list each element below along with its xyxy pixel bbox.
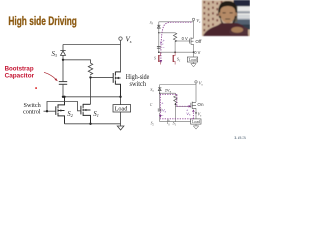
mini1 dashed charge curve [161,22,192,50]
mosfet S2 [56,97,65,124]
mini1 wire top rail [159,21,194,23]
ground [117,126,124,130]
mini2 wire bottom rail [160,121,196,123]
wire switch-control bus [44,102,81,112]
wire mid rail [63,96,121,98]
webcam person hand and arm [229,27,248,35]
svg-text:Load: Load [115,106,129,113]
mini1 transistor S1 (red, on) [172,55,174,62]
svg-text:S3: S3 [150,21,154,26]
mini2 wire resistor to bottom rail [174,104,176,122]
mini2 dashed loop [160,94,194,119]
svg-text:S2: S2 [67,111,73,118]
webcam printer [236,6,251,20]
wire node A to resistor [63,60,91,63]
mosfet S1 [81,104,91,124]
wire load bottom [120,112,122,126]
mini1 wire bottom rail [159,51,194,53]
webcam person torso sweater [203,23,249,36]
webcam shadow behind head [233,6,237,22]
wire top rail [63,44,121,46]
supply terminal Vs [119,37,122,40]
wire cap bottom [62,84,64,97]
webcam person eyes [223,11,226,14]
svg-text:0 V: 0 V [182,36,188,41]
wire cap top [62,60,64,82]
svg-text:On: On [197,102,204,107]
wire node B down to S1 drain [90,77,92,104]
mini1 wire left vertical [158,22,160,52]
wire diode top [62,45,64,51]
svg-text:C: C [150,103,153,107]
svg-text:Capacitor: Capacitor [5,72,35,79]
svg-text:183: 183 [234,135,248,140]
wire Vs drop [120,40,122,44]
mini2 wire gate feed [175,105,191,107]
svg-text:switch: switch [130,80,147,88]
svg-text:S2: S2 [151,122,155,127]
svg-text:S3: S3 [150,88,154,93]
mini2 junction dot source node [195,112,197,114]
mini1 dashed arrow down [160,53,162,61]
node S2 drain junction dot [63,96,65,98]
wire load top [120,97,122,105]
svg-text:Vs: Vs [199,80,204,86]
svg-text:Vs: Vs [196,18,201,24]
node mid-rail right junction dot [119,96,121,98]
svg-text:−: − [162,45,165,50]
capacitor Cb bootstrap [59,82,67,85]
svg-text:Bootstrap: Bootstrap [5,65,34,72]
webcam person ears [219,13,221,17]
mini2 ground [193,126,198,129]
mini1 wire resistor to rail [174,41,176,52]
wire node B gate feed [91,76,114,78]
mini1 mosfet (high side) [190,37,194,44]
mini1 terminal Vs [192,18,194,20]
webcam furniture right [233,20,251,29]
resistor R [88,63,92,75]
mini1 diode S3 [157,25,160,28]
leader arrow [44,72,56,79]
node A junction dot [62,59,64,61]
svg-text:Vs: Vs [198,111,203,117]
svg-text:Vs: Vs [126,36,132,45]
webcam person hair [218,1,237,18]
mini2 wire top rail [160,84,196,86]
webcam background wallpaper [202,0,250,36]
svg-text:2Vs: 2Vs [165,87,172,93]
mini1 junction dots [158,32,159,33]
wire ground rail [65,123,121,125]
mini2 mosfet (high side, on) [191,102,196,109]
diode S3 [60,51,65,56]
mini2 wire left vertical [159,85,161,109]
svg-text:S1: S1 [173,121,177,127]
svg-text:S1: S1 [93,111,99,118]
mini1 wire load drop [193,52,195,57]
mini2 junction dot resistor bottom [175,103,177,105]
load box [113,105,131,112]
mini1 load box [187,57,197,62]
mini2 load box [191,119,201,124]
mini1 wire resistor feed [159,32,175,34]
webcam person face [220,6,235,23]
svg-text:S: S [154,57,156,61]
laser dot [35,87,37,89]
mini2 capacitor plates [158,109,162,111]
svg-text:control: control [23,109,41,116]
mini1 wire gate feed [175,40,190,42]
mini1 wire right vertical [193,21,195,39]
node B junction dot [89,76,91,78]
mini2 wire resistor feed [160,92,176,94]
mini2 junction dot feed [159,93,160,94]
svg-text:Vs: Vs [186,111,191,117]
svg-text:+: + [161,102,164,106]
webcam person beard [220,15,235,27]
node switch-control junction dot [46,110,48,112]
svg-text:S3: S3 [52,51,58,58]
svg-text:−: − [161,113,164,118]
mini2 diode S3 [158,88,161,91]
mosfet high-side switch [113,72,120,97]
mini1 capacitor plates [157,46,161,48]
mini1 resistor [173,33,176,42]
ground rail S1 junction dot [89,123,91,125]
mini2 dashed arrowheads [189,105,192,108]
mini2 terminal Vs [195,81,197,83]
mini2 wire left vertical lower [159,113,161,122]
mini2 transistor S2 (grey) [168,120,170,126]
svg-text:0 V: 0 V [194,50,200,55]
svg-text:+: + [163,39,165,43]
svg-text:Off: Off [195,39,202,44]
wire right vertical to drain [120,45,122,72]
svg-text:Load: Load [189,58,197,62]
mini2 resistor [174,93,177,105]
mini2 wire right vertical [195,83,197,102]
svg-text:Load: Load [192,120,200,124]
mini1 ground [191,64,196,67]
svg-text:High side Driving: High side Driving [8,16,77,28]
svg-text:S1: S1 [177,57,181,63]
node cap-bottom junction dot [62,96,64,98]
webcam dark corner [234,0,251,7]
mini1 transistor S2 (red, on) [158,55,160,62]
wire diode bottom to node A [62,55,64,59]
